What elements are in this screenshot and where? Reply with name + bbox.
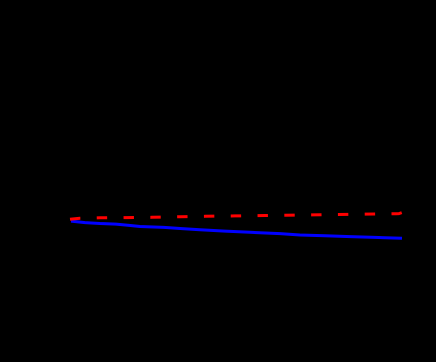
- red dashed curve (upper series): [70, 213, 402, 220]
- blue solid curve (lower series): [71, 221, 402, 238]
